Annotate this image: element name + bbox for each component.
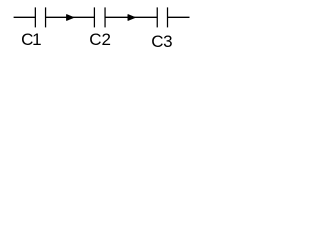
wire bbox=[46, 16, 95, 18]
svg-text:1: 1 bbox=[32, 30, 41, 49]
capacitor C2 bbox=[94, 7, 105, 27]
wire bbox=[168, 16, 190, 18]
capacitor C1 bbox=[35, 7, 45, 27]
arrow (signal direction) bbox=[128, 15, 135, 21]
wire bbox=[105, 16, 157, 18]
svg-text:C3: C3 bbox=[151, 32, 172, 51]
capacitor C3 bbox=[157, 7, 167, 27]
arrow (signal direction) bbox=[67, 15, 74, 21]
svg-text:C2: C2 bbox=[89, 30, 111, 49]
wire bbox=[14, 16, 36, 18]
